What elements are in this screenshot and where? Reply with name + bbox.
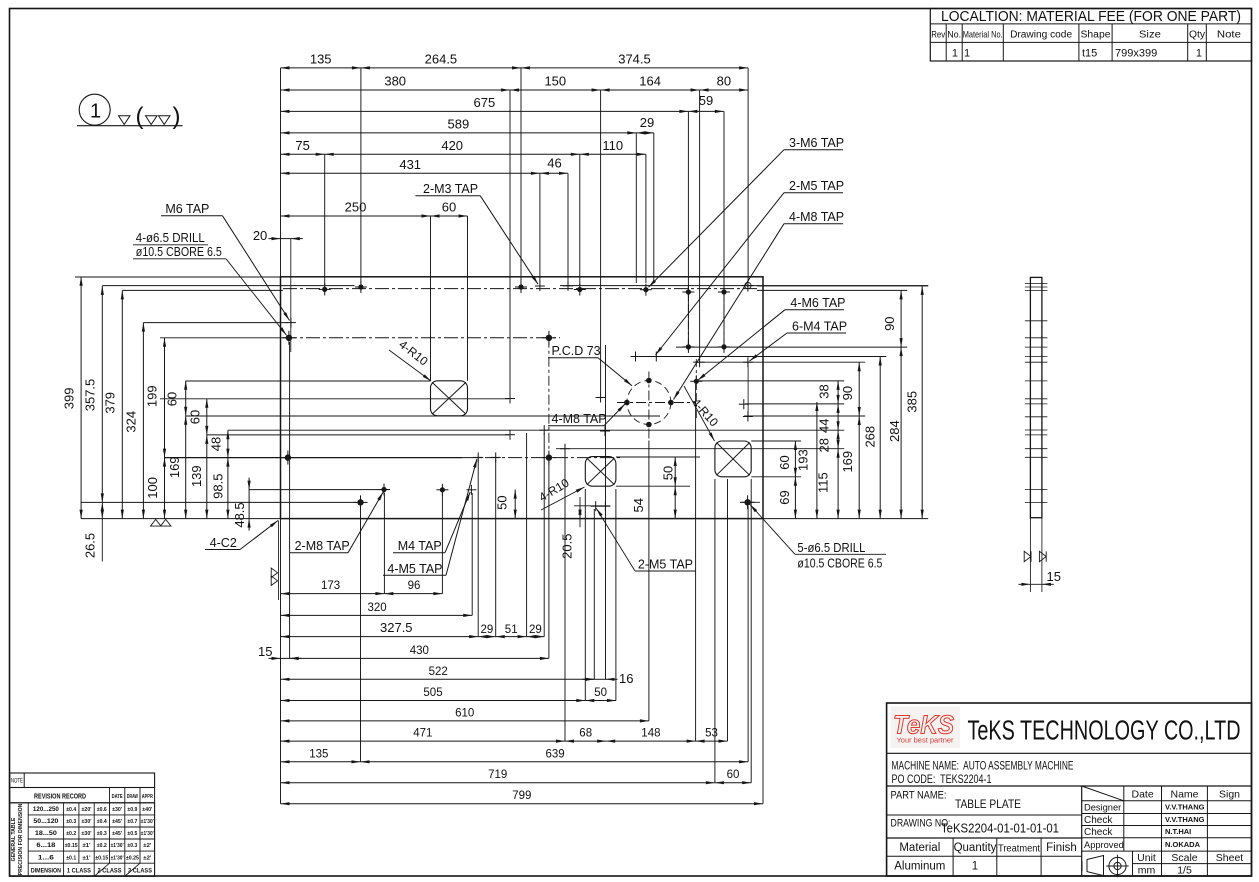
- svg-text:675: 675: [474, 95, 496, 110]
- dim 420 top: [325, 138, 580, 156]
- svg-text:54: 54: [631, 498, 646, 512]
- svg-text:6...18: 6...18: [36, 842, 55, 849]
- hole H30: [473, 452, 483, 462]
- svg-text:±0.4: ±0.4: [97, 819, 108, 825]
- dim 51: [496, 624, 527, 638]
- dim 639: [361, 748, 749, 763]
- dim 799: [281, 790, 764, 805]
- svg-text:2-M3 TAP: 2-M3 TAP: [423, 182, 478, 196]
- svg-text:(: (: [136, 103, 144, 130]
- dim 150 top: [510, 74, 601, 92]
- svg-text:48: 48: [208, 437, 223, 451]
- note 4-M8 TAP mid: [548, 404, 625, 426]
- svg-text:Designer: Designer: [1084, 803, 1121, 813]
- dim 60+169: [165, 381, 188, 519]
- svg-text:4-M8 TAP: 4-M8 TAP: [552, 412, 607, 426]
- dim 675 top: [281, 95, 689, 113]
- svg-text:38: 38: [817, 384, 832, 398]
- svg-text:TeKS2204-01-01-01-01: TeKS2204-01-01-01-01: [941, 821, 1059, 836]
- dim 719: [281, 769, 715, 784]
- svg-text:430: 430: [410, 645, 429, 657]
- svg-text:±30': ±30': [82, 831, 93, 837]
- hole H25: [505, 430, 515, 440]
- svg-text:±1'30': ±1'30': [141, 831, 155, 837]
- dim 60 bottom right: [715, 769, 751, 784]
- finish marks left edge: [271, 521, 278, 601]
- precision table frame: [10, 803, 155, 877]
- centerline row 457: [165, 457, 623, 459]
- svg-text:193: 193: [795, 449, 810, 471]
- pocket P2 4-R10: [585, 457, 616, 487]
- note 4-C2: [205, 521, 278, 551]
- svg-text:2-M8 TAP: 2-M8 TAP: [295, 539, 350, 553]
- centerline col 724: [723, 287, 725, 350]
- hole H2: [515, 281, 527, 293]
- row extension lines: [75, 277, 928, 519]
- svg-text:20.5: 20.5: [559, 534, 574, 559]
- dim 29a: [478, 624, 496, 638]
- svg-text:1...6: 1...6: [38, 854, 54, 861]
- svg-text:ø10.5 CBORE 6.5: ø10.5 CBORE 6.5: [797, 556, 882, 570]
- svg-text:96: 96: [408, 580, 421, 592]
- svg-text:±1'30': ±1'30': [111, 843, 125, 849]
- svg-text:68: 68: [579, 728, 592, 740]
- dim 75 top: [281, 138, 325, 156]
- svg-text:250: 250: [345, 200, 367, 215]
- svg-text:±2': ±2': [143, 843, 152, 849]
- svg-text:327.5: 327.5: [380, 620, 413, 635]
- hole H22: [631, 352, 641, 362]
- svg-text:±0.3: ±0.3: [66, 819, 76, 825]
- hole H18: [505, 394, 515, 404]
- precision table rotated label: [11, 803, 24, 875]
- svg-text:Size: Size: [1139, 30, 1161, 41]
- svg-text:3-M6 TAP: 3-M6 TAP: [789, 136, 844, 150]
- svg-text:115: 115: [815, 472, 830, 493]
- svg-text:90: 90: [882, 316, 897, 330]
- note box: [10, 773, 155, 788]
- svg-text:DRAW: DRAW: [127, 794, 139, 800]
- svg-text:PRECISION FOR DIMENSION: PRECISION FOR DIMENSION: [18, 803, 24, 875]
- dim 48+98.5: [208, 430, 229, 518]
- note 3-M6 TAP: [649, 136, 845, 287]
- title block frame: [887, 703, 1252, 876]
- centerline col 688: [687, 287, 689, 350]
- top extension lines: [281, 68, 749, 394]
- hole H17: [743, 357, 753, 367]
- dim 374.5 top: [521, 51, 748, 69]
- svg-text:15: 15: [258, 644, 272, 659]
- svg-text:Note: Note: [1217, 30, 1241, 41]
- hole H20: [600, 426, 610, 436]
- svg-text:1: 1: [1196, 48, 1202, 60]
- svg-text:Material: Material: [899, 842, 940, 854]
- svg-text:50...120: 50...120: [33, 818, 58, 825]
- svg-text:±1': ±1': [83, 843, 92, 849]
- svg-text:420: 420: [441, 138, 463, 153]
- svg-text:ø10.5 CBORE 6.5: ø10.5 CBORE 6.5: [136, 245, 222, 259]
- svg-text:799x399: 799x399: [1115, 48, 1157, 60]
- centerline PCD vertical: [648, 372, 650, 441]
- svg-text:Rev: Rev: [931, 30, 945, 41]
- dim 60 top: [431, 200, 468, 218]
- hole H26: [539, 425, 549, 435]
- dim 135 bottom: [281, 748, 361, 763]
- svg-text:48.5: 48.5: [232, 502, 247, 527]
- dim 357.5: [83, 286, 104, 503]
- centerline PCD horizontal: [617, 402, 696, 404]
- dim 430: [290, 645, 549, 660]
- dim 385: [905, 286, 924, 519]
- note M4 TAP: [393, 492, 470, 553]
- hole H3: [535, 281, 545, 291]
- svg-text:Your best partner: Your best partner: [897, 736, 954, 745]
- centerline row 338: [283, 337, 560, 339]
- svg-text:mm: mm: [1138, 864, 1156, 876]
- svg-text:2 CLASS: 2 CLASS: [98, 868, 123, 875]
- svg-text:±0.3: ±0.3: [127, 843, 137, 849]
- svg-text:90: 90: [840, 386, 855, 400]
- note 4-R10 P2: [536, 475, 584, 510]
- precision table text: [31, 806, 155, 875]
- hole H24: [739, 399, 749, 409]
- note 4-R10 P3: [684, 386, 721, 441]
- svg-text:799: 799: [512, 790, 531, 802]
- dim 164 top: [601, 74, 700, 92]
- svg-text:±30': ±30': [112, 807, 123, 813]
- note 4-o6.5 drill: [133, 231, 287, 335]
- dim 264.5 top: [361, 51, 521, 69]
- hole H35: [466, 485, 476, 495]
- svg-text:324: 324: [124, 411, 139, 433]
- svg-text:98.5: 98.5: [211, 474, 226, 499]
- svg-text:320: 320: [368, 602, 387, 614]
- svg-text:44: 44: [817, 419, 832, 433]
- svg-text:51: 51: [505, 624, 518, 636]
- svg-text:Check: Check: [1084, 827, 1113, 838]
- svg-text:±45': ±45': [112, 819, 123, 825]
- svg-text:4-ø6.5 DRILL: 4-ø6.5 DRILL: [136, 231, 205, 245]
- dim 20.5: [559, 497, 581, 559]
- svg-text:±2': ±2': [143, 855, 152, 861]
- svg-text:28: 28: [817, 438, 832, 452]
- svg-text:4-C2: 4-C2: [210, 536, 237, 550]
- svg-text:NOTE: NOTE: [11, 778, 23, 785]
- dim 29b: [527, 624, 545, 638]
- dim 327.5: [281, 620, 479, 638]
- dim 380 top: [281, 74, 511, 92]
- svg-text:1 CLASS: 1 CLASS: [67, 868, 92, 875]
- svg-text:53: 53: [705, 728, 718, 740]
- svg-text:±40': ±40': [142, 807, 153, 813]
- material table row: [952, 48, 1202, 60]
- svg-text:284: 284: [887, 420, 902, 442]
- svg-text:18...50: 18...50: [35, 830, 57, 837]
- svg-text:M4 TAP: M4 TAP: [398, 539, 442, 553]
- hole H23: [651, 352, 661, 362]
- dim 250 top: [281, 200, 431, 218]
- svg-text:±0.9: ±0.9: [127, 807, 137, 813]
- revision record frame: [10, 788, 155, 803]
- svg-text:69: 69: [777, 490, 792, 504]
- dim 324: [124, 323, 145, 519]
- svg-text:±0.25: ±0.25: [126, 855, 139, 861]
- dim 15 bottom: [258, 644, 302, 660]
- hole H10: [718, 286, 730, 298]
- dim 26.5: [83, 502, 104, 561]
- svg-text:2-M5 TAP: 2-M5 TAP: [638, 558, 693, 572]
- dim 199+100: [145, 338, 167, 519]
- svg-text:Material No.: Material No.: [963, 30, 1003, 41]
- svg-text:Sheet: Sheet: [1216, 852, 1244, 864]
- svg-text:Date: Date: [1132, 789, 1154, 801]
- svg-text:100: 100: [145, 477, 160, 499]
- svg-text:Check: Check: [1084, 815, 1113, 826]
- svg-text:380: 380: [384, 74, 406, 89]
- dim 15 side: [1018, 569, 1061, 586]
- svg-text:1: 1: [972, 861, 978, 873]
- svg-text:1: 1: [90, 101, 101, 123]
- hole H14: [682, 341, 694, 353]
- svg-text:169: 169: [840, 451, 855, 473]
- svg-text:589: 589: [448, 116, 470, 131]
- svg-text:522: 522: [429, 666, 448, 678]
- dim 610: [281, 707, 649, 722]
- svg-text:120...250: 120...250: [33, 806, 59, 813]
- note 5-o6.5 drill: [750, 505, 886, 571]
- dim 505: [281, 687, 586, 702]
- note 4-M8 TAP top: [674, 210, 845, 399]
- svg-text:t15: t15: [1082, 48, 1097, 60]
- centerline top hole row: [283, 288, 757, 290]
- svg-text:Shape: Shape: [1081, 30, 1111, 41]
- svg-text:): ): [173, 103, 181, 130]
- hole H34: [436, 484, 448, 496]
- side view finish marks: [1024, 551, 1046, 561]
- svg-text:N.T.HAI: N.T.HAI: [1165, 827, 1191, 836]
- hole H38: [591, 501, 601, 511]
- hole H39: [600, 501, 610, 511]
- note 4-M6 TAP: [698, 296, 846, 380]
- svg-text:29: 29: [529, 624, 542, 636]
- svg-text:APPR: APPR: [142, 794, 153, 800]
- dim 53: [696, 728, 728, 743]
- side view outline: [1030, 277, 1042, 517]
- svg-text:TeKS TECHNOLOGY CO.,LTD: TeKS TECHNOLOGY CO.,LTD: [968, 715, 1241, 746]
- svg-text:59: 59: [699, 93, 713, 108]
- svg-text:199: 199: [145, 385, 160, 407]
- material table header: [931, 30, 1241, 41]
- svg-text:Quantity: Quantity: [954, 842, 997, 854]
- dim 68: [565, 728, 606, 743]
- material table frame: [930, 9, 1251, 62]
- plate outline: [281, 277, 764, 519]
- hole H32: [542, 451, 556, 465]
- svg-text:Qty: Qty: [1189, 30, 1205, 41]
- hole H11: [286, 318, 296, 328]
- pocket P1 4-R10: [431, 381, 468, 416]
- hole H15: [718, 341, 730, 353]
- dim 46 top: [540, 156, 568, 175]
- dim 90+284 right: [882, 290, 903, 518]
- PCD hole top: [646, 378, 652, 384]
- hole H31: [491, 452, 501, 462]
- dim 148: [606, 728, 695, 743]
- centerline col 696: [695, 359, 697, 420]
- dim 16: [582, 671, 633, 686]
- svg-text:±0.2: ±0.2: [97, 843, 107, 849]
- dim 50 bottom: [585, 687, 616, 702]
- dim 193: [795, 402, 818, 519]
- svg-text:V.V.THANG: V.V.THANG: [1165, 803, 1205, 812]
- svg-text:±30': ±30': [82, 819, 93, 825]
- dim 173: [281, 580, 385, 595]
- svg-text:2-M5 TAP: 2-M5 TAP: [789, 179, 844, 193]
- svg-text:164: 164: [639, 74, 661, 89]
- hole H9: [682, 286, 694, 298]
- svg-text:60: 60: [777, 455, 792, 469]
- svg-text:264.5: 264.5: [425, 51, 458, 66]
- note 4-R10 P1: [389, 337, 431, 381]
- svg-text:29: 29: [481, 624, 494, 636]
- svg-text:Aluminum: Aluminum: [894, 861, 945, 873]
- svg-text:±0.2: ±0.2: [66, 831, 76, 837]
- svg-text:50: 50: [495, 495, 510, 509]
- svg-text:639: 639: [546, 748, 565, 760]
- hole H7: [574, 284, 586, 296]
- svg-text:431: 431: [399, 157, 421, 172]
- hole H29: [281, 451, 295, 465]
- svg-text:173: 173: [321, 580, 340, 592]
- svg-text:26.5: 26.5: [83, 533, 98, 558]
- svg-text:15: 15: [1047, 569, 1061, 584]
- svg-text:50: 50: [594, 687, 607, 699]
- note 2-M5 TAP bottom: [596, 508, 696, 571]
- svg-text:75: 75: [295, 138, 309, 153]
- svg-text:No.: No.: [947, 30, 961, 41]
- dim 399: [62, 277, 83, 519]
- dim 50 mid: [495, 490, 517, 519]
- svg-text:Finish: Finish: [1046, 842, 1077, 854]
- svg-text:DATE: DATE: [112, 794, 123, 800]
- svg-text:60: 60: [188, 410, 203, 424]
- svg-text:±1'30': ±1'30': [141, 819, 155, 825]
- dim 110 top: [580, 138, 646, 156]
- side view hole rows: [1025, 284, 1048, 503]
- svg-text:505: 505: [423, 687, 442, 699]
- PCD hole right: [668, 400, 674, 406]
- dim 20 top: [253, 228, 303, 352]
- dim 60+69 right: [777, 441, 797, 519]
- svg-text:±20': ±20': [82, 807, 93, 813]
- dim 96: [384, 580, 442, 595]
- note 4-M5 TAP: [383, 459, 477, 576]
- svg-text:3 CLASS: 3 CLASS: [128, 868, 153, 875]
- svg-text:6-M4 TAP: 6-M4 TAP: [792, 320, 847, 334]
- hole H8: [640, 284, 652, 296]
- bottom extension lines: [281, 342, 764, 804]
- dim 268: [863, 357, 882, 519]
- svg-text:5-ø6.5 DRILL: 5-ø6.5 DRILL: [797, 541, 865, 555]
- hole H4: [742, 280, 754, 292]
- svg-text:169: 169: [167, 456, 182, 478]
- svg-text:±1'30': ±1'30': [111, 855, 125, 861]
- note PCD 73: [548, 344, 632, 386]
- dim 60+139: [188, 399, 209, 519]
- hole H27: [560, 444, 570, 454]
- svg-text:REVISION RECORD: REVISION RECORD: [34, 792, 86, 801]
- svg-text:148: 148: [641, 728, 660, 740]
- hole H1: [355, 281, 367, 293]
- note M6 TAP: [161, 202, 290, 321]
- hole H12: [282, 331, 296, 345]
- svg-text:20: 20: [253, 228, 267, 243]
- svg-text:610: 610: [455, 707, 474, 719]
- dim 135 top: [281, 51, 361, 69]
- dim 320: [281, 602, 473, 617]
- svg-text:LOCALTION: MATERIAL FEE (FOR O: LOCALTION: MATERIAL FEE (FOR ONE PART): [941, 9, 1241, 25]
- svg-text:16: 16: [619, 671, 633, 686]
- svg-text:TABLE PLATE: TABLE PLATE: [955, 799, 1021, 811]
- svg-text:GENERAL TABLE: GENERAL TABLE: [11, 817, 17, 861]
- dim 379: [103, 290, 124, 518]
- svg-text:±0.1: ±0.1: [66, 855, 76, 861]
- svg-text:Name: Name: [1170, 789, 1198, 801]
- svg-text:1/5: 1/5: [1177, 864, 1192, 876]
- hole H13: [542, 331, 556, 345]
- dim 59 top: [688, 93, 723, 113]
- svg-text:±0.6: ±0.6: [97, 807, 107, 813]
- svg-text:±0.3: ±0.3: [97, 831, 107, 837]
- svg-text:150: 150: [544, 74, 566, 89]
- hole H21: [690, 375, 702, 387]
- svg-text:±0.15: ±0.15: [95, 855, 108, 861]
- dim 50+54 right: [631, 457, 677, 519]
- svg-text:DIMENSION: DIMENSION: [31, 868, 61, 875]
- surface finish datum 1: [77, 94, 183, 130]
- svg-text:±1': ±1': [83, 855, 92, 861]
- dim 38+44+28+115: [815, 381, 839, 519]
- svg-text:374.5: 374.5: [618, 51, 651, 66]
- svg-text:50: 50: [660, 466, 675, 480]
- centerline col 549: [548, 338, 550, 462]
- pocket P3 4-R10: [715, 441, 751, 477]
- hole H37: [741, 495, 755, 509]
- note 6-M4 TAP: [750, 320, 848, 362]
- PCD hole bottom: [646, 422, 652, 428]
- svg-text:357.5: 357.5: [83, 379, 98, 412]
- svg-text:MACHINE NAME: AUTO ASSEMBLY M: MACHINE NAME: AUTO ASSEMBLY MACHINE: [892, 761, 1074, 773]
- svg-text:135: 135: [310, 51, 332, 66]
- dim 48.5: [232, 478, 251, 531]
- hole H19: [596, 393, 606, 403]
- side view extension: [1030, 518, 1042, 592]
- svg-text:PART NAME:: PART NAME:: [891, 790, 947, 802]
- svg-text:1: 1: [952, 48, 958, 60]
- dim 522: [281, 666, 595, 681]
- svg-text:60: 60: [165, 392, 180, 406]
- revision record labels: [34, 792, 153, 801]
- svg-text:379: 379: [103, 392, 118, 414]
- svg-text:4-M6 TAP: 4-M6 TAP: [790, 296, 845, 310]
- svg-text:P.C.D 73: P.C.D 73: [552, 344, 601, 358]
- finish marks bottom edge: [151, 519, 172, 526]
- hole H5: [319, 283, 331, 295]
- hole H16: [695, 357, 705, 367]
- svg-text:±0.15: ±0.15: [65, 843, 78, 849]
- svg-text:385: 385: [905, 391, 920, 413]
- svg-text:80: 80: [717, 74, 731, 89]
